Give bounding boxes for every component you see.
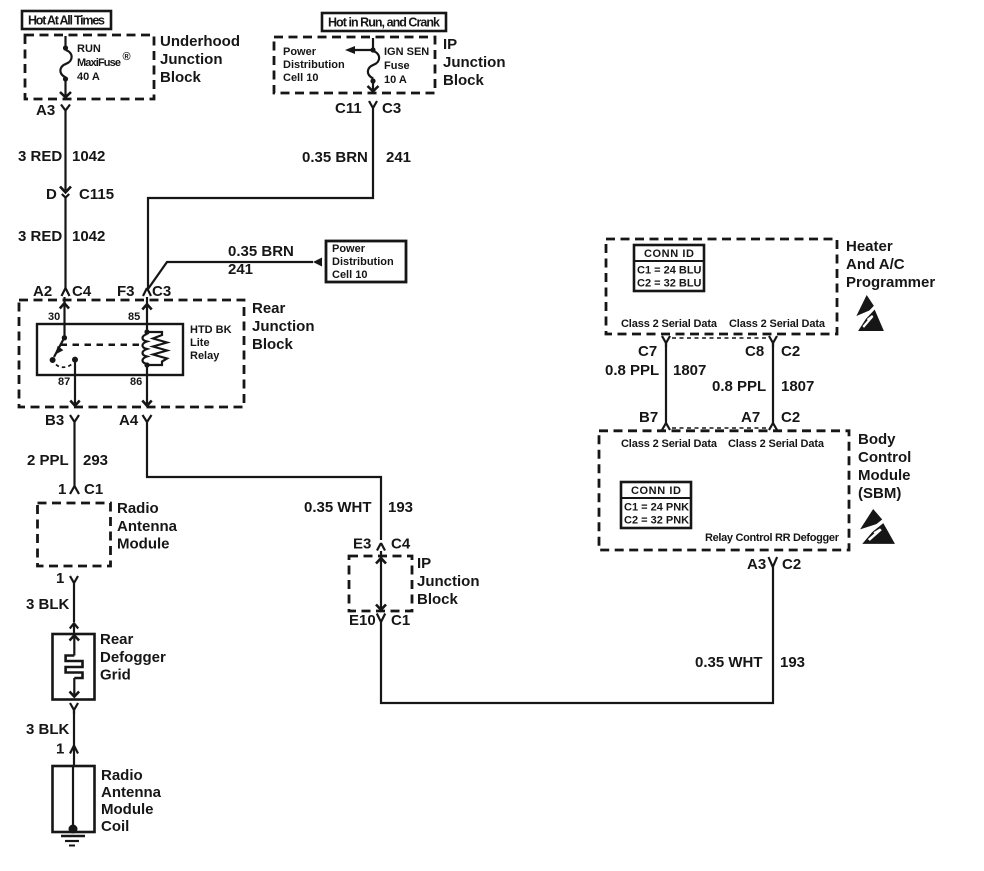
svg-text:Module: Module <box>117 536 170 553</box>
svg-text:Antenna: Antenna <box>101 784 162 801</box>
connector E10 / C1 <box>349 612 410 629</box>
svg-text:Class 2 Serial Data: Class 2 Serial Data <box>621 318 718 330</box>
svg-text:1807: 1807 <box>673 362 706 379</box>
svg-text:Junction: Junction <box>443 54 506 71</box>
defogger grid element <box>66 635 83 696</box>
fuse F: RUN MaxiFuse 40 A <box>60 36 131 97</box>
svg-text:C2: C2 <box>781 343 800 360</box>
banner: Hot in Run, and Crank <box>322 13 446 31</box>
relay mechanical link (dashed) <box>61 344 142 347</box>
connector A3 / C2 (BCM) <box>747 556 801 573</box>
svg-text:Class 2 Serial Data: Class 2 Serial Data <box>621 438 718 450</box>
wire: 3 BLK to coil <box>26 710 74 745</box>
svg-text:1: 1 <box>56 570 64 587</box>
svg-text:0.8 PPL: 0.8 PPL <box>712 378 766 395</box>
svg-text:Module: Module <box>101 801 154 818</box>
svg-text:1042: 1042 <box>72 148 105 165</box>
svg-text:Hot At All Times: Hot At All Times <box>28 14 105 28</box>
connector 1 below Radio Antenna Module <box>56 570 78 587</box>
svg-text:Underhood: Underhood <box>160 33 240 50</box>
svg-text:C3: C3 <box>152 283 171 300</box>
connector A7 / C2 <box>741 409 800 430</box>
svg-text:3 RED: 3 RED <box>18 148 62 165</box>
ESD symbol (BCM) <box>860 509 895 544</box>
svg-text:Power: Power <box>283 46 317 58</box>
svg-text:C7: C7 <box>638 343 657 360</box>
svg-text:0.35 WHT: 0.35 WHT <box>695 654 763 671</box>
svg-text:Block: Block <box>417 591 459 608</box>
fuse: IGN SEN Fuse 10 A <box>368 38 430 91</box>
svg-text:IGN SEN: IGN SEN <box>384 46 429 58</box>
label: Rear Junction Block <box>252 300 315 353</box>
svg-text:Programmer: Programmer <box>846 274 935 291</box>
svg-text:241: 241 <box>228 261 253 278</box>
label: Relay Control RR Defogger <box>705 532 840 544</box>
wire: D to A2 (3 RED 1042) <box>18 198 105 288</box>
svg-text:C1 = 24 BLU: C1 = 24 BLU <box>637 265 702 277</box>
wire through IP junction block with arrows <box>376 551 386 612</box>
svg-text:193: 193 <box>780 654 805 671</box>
svg-text:3 BLK: 3 BLK <box>26 596 70 613</box>
svg-text:C2 = 32 BLU: C2 = 32 BLU <box>637 278 702 290</box>
label: IP Junction Block (bottom) <box>417 555 480 608</box>
connector 1 above coil <box>56 741 78 767</box>
svg-text:2 PPL: 2 PPL <box>27 452 69 469</box>
pin 30 wire with up arrow <box>48 297 69 337</box>
pin 86 wire with down arrow <box>130 365 152 406</box>
connector B3 <box>45 412 79 429</box>
ESD symbol (heater) <box>856 295 884 331</box>
svg-text:C8: C8 <box>745 343 764 360</box>
svg-text:C3: C3 <box>382 100 401 117</box>
svg-text:0.35 BRN: 0.35 BRN <box>228 243 294 260</box>
svg-text:C115: C115 <box>79 186 114 203</box>
svg-text:3 BLK: 3 BLK <box>26 721 70 738</box>
svg-text:293: 293 <box>83 452 108 469</box>
svg-text:Cell 10: Cell 10 <box>332 269 367 281</box>
svg-text:1: 1 <box>58 481 66 498</box>
connector B7 <box>639 409 670 430</box>
connector A4 <box>119 412 152 429</box>
svg-text:D: D <box>46 186 57 203</box>
svg-text:10 A: 10 A <box>384 74 407 86</box>
svg-text:CONN ID: CONN ID <box>644 248 694 260</box>
Rear Junction Block (dashed box) <box>19 300 244 407</box>
svg-text:C4: C4 <box>72 283 92 300</box>
svg-text:A3: A3 <box>36 102 55 119</box>
svg-text:1807: 1807 <box>781 378 814 395</box>
svg-text:MaxiFuse: MaxiFuse <box>77 57 121 69</box>
svg-text:RUN: RUN <box>77 43 101 55</box>
Underhood Junction Block (dashed box) <box>25 35 154 99</box>
svg-text:C2: C2 <box>781 409 800 426</box>
wire: B3 to C1 (2 PPL 293) <box>27 427 108 486</box>
label: Class 2 Serial Data (heater, left) <box>621 318 718 330</box>
svg-text:40 A: 40 A <box>77 71 100 83</box>
svg-text:Cell 10: Cell 10 <box>283 72 318 84</box>
svg-text:Hot in Run, and Crank: Hot in Run, and Crank <box>328 16 440 30</box>
CONN ID box (BLU) <box>634 245 704 291</box>
box: Power Distribution Cell 10 <box>326 241 406 282</box>
svg-text:85: 85 <box>128 311 140 323</box>
label: Underhood Junction Block <box>160 33 240 86</box>
svg-text:E3: E3 <box>353 536 371 553</box>
IP Junction Block bottom (dashed box) <box>349 556 412 611</box>
label: Class 2 Serial Data (BCM, left) <box>621 438 718 450</box>
pin 85 wire with up arrow <box>128 297 152 332</box>
dotted link top <box>672 337 766 339</box>
svg-text:Radio: Radio <box>101 767 143 784</box>
relay switch (pin 30 to 87) <box>50 335 78 367</box>
in-line connector D / C115 <box>46 186 114 203</box>
svg-text:Class 2 Serial Data: Class 2 Serial Data <box>728 438 825 450</box>
connector E3 / C4 <box>353 536 411 553</box>
wire: 3 BLK to defogger grid <box>26 587 74 622</box>
connector C8 / C2 <box>745 336 800 360</box>
banner: Hot At All Times <box>22 11 111 29</box>
svg-text:C1: C1 <box>84 481 103 498</box>
svg-text:CONN ID: CONN ID <box>631 485 681 497</box>
svg-text:Junction: Junction <box>417 573 480 590</box>
svg-text:0.35 WHT: 0.35 WHT <box>304 499 372 516</box>
wire: A3 to D (3 RED 1042) <box>18 114 105 190</box>
svg-text:A7: A7 <box>741 409 760 426</box>
wire: branch from F3 to Power Distribution (0.35 BRN 241) <box>148 243 322 289</box>
svg-text:Class 2 Serial Data: Class 2 Serial Data <box>729 318 826 330</box>
svg-text:Heater: Heater <box>846 238 893 255</box>
svg-text:Antenna: Antenna <box>117 518 178 535</box>
svg-text:Distribution: Distribution <box>332 256 394 268</box>
wire: E10 down right and up to A3/C2 (0.35 WHT 193) <box>381 567 805 703</box>
connector below defogger grid <box>70 703 78 714</box>
svg-text:C1 = 24 PNK: C1 = 24 PNK <box>624 502 689 514</box>
svg-text:C11: C11 <box>335 100 362 117</box>
svg-text:B7: B7 <box>639 409 658 426</box>
svg-text:241: 241 <box>386 149 411 166</box>
connector C11 / C3 <box>335 100 401 117</box>
Radio Antenna Module (dashed box) <box>38 503 111 566</box>
svg-text:A3: A3 <box>747 556 766 573</box>
arrow to Power Distribution <box>345 46 373 54</box>
pin 87 wire with down arrow <box>58 362 80 406</box>
svg-text:C2: C2 <box>782 556 801 573</box>
svg-text:(SBM): (SBM) <box>858 485 901 502</box>
relay coil with resistor <box>143 329 168 367</box>
svg-text:Junction: Junction <box>252 318 315 335</box>
svg-text:0.8 PPL: 0.8 PPL <box>605 362 659 379</box>
svg-text:HTD BK: HTD BK <box>190 324 232 336</box>
label: IP Junction Block (top) <box>443 36 506 89</box>
svg-text:1042: 1042 <box>72 228 105 245</box>
Rear Defogger Grid box <box>53 623 167 700</box>
svg-text:F3: F3 <box>117 283 135 300</box>
Radio Antenna Module Coil box <box>53 766 162 835</box>
connector 1 / C1 <box>58 481 103 498</box>
svg-text:1: 1 <box>56 741 64 758</box>
Body Control Module (dashed box) <box>599 431 849 550</box>
svg-text:Coil: Coil <box>101 818 129 835</box>
svg-text:30: 30 <box>48 311 60 323</box>
svg-text:IP: IP <box>417 555 431 572</box>
svg-text:Grid: Grid <box>100 667 131 684</box>
svg-text:And A/C: And A/C <box>846 256 905 273</box>
Heater And A/C Programmer (dashed box) <box>606 239 837 334</box>
svg-text:Rear: Rear <box>252 300 286 317</box>
svg-text:Rear: Rear <box>100 631 134 648</box>
IP Junction Block top (dashed box) <box>274 37 435 93</box>
connector A3 <box>36 102 70 119</box>
svg-text:Radio: Radio <box>117 500 159 517</box>
connector F3 / C3 <box>117 283 171 300</box>
svg-text:87: 87 <box>58 376 70 388</box>
svg-text:Distribution: Distribution <box>283 59 345 71</box>
svg-text:C4: C4 <box>391 536 411 553</box>
svg-text:Block: Block <box>443 72 485 89</box>
label: Radio Antenna Module <box>117 500 178 553</box>
CONN ID box (PNK) <box>621 482 691 528</box>
svg-text:Lite: Lite <box>190 337 210 349</box>
dotted link bottom <box>672 427 766 429</box>
label: Class 2 Serial Data (heater, right) <box>729 318 826 330</box>
svg-text:0.35 BRN: 0.35 BRN <box>302 149 368 166</box>
label: Heater And A/C Programmer <box>846 238 935 291</box>
svg-text:E10: E10 <box>349 612 376 629</box>
coil internal wire and ground <box>61 766 85 846</box>
svg-text:3 RED: 3 RED <box>18 228 62 245</box>
wire: C7 to B7 (0.8 PPL 1807) <box>605 343 706 423</box>
svg-text:Relay Control RR Defogger: Relay Control RR Defogger <box>705 532 840 544</box>
svg-text:®: ® <box>123 51 131 63</box>
svg-text:Block: Block <box>252 336 294 353</box>
label: Body Control Module (SBM) <box>858 431 911 502</box>
svg-text:193: 193 <box>388 499 413 516</box>
svg-text:Power: Power <box>332 243 366 255</box>
svg-text:86: 86 <box>130 376 142 388</box>
svg-text:Fuse: Fuse <box>384 60 410 72</box>
wire: C8 to A7 (0.8 PPL 1807) <box>712 343 814 423</box>
label: Class 2 Serial Data (BCM, right) <box>728 438 825 450</box>
svg-text:Control: Control <box>858 449 911 466</box>
wire: A4 down and right to E3 (0.35 WHT 193) <box>147 427 413 540</box>
svg-text:Junction: Junction <box>160 51 223 68</box>
svg-text:C1: C1 <box>391 612 410 629</box>
label: Power Distribution Cell 10 (in IP block) <box>283 46 345 84</box>
svg-text:Block: Block <box>160 69 202 86</box>
svg-text:A2: A2 <box>33 283 52 300</box>
wire: C11 branch down-left to F3 <box>148 112 411 288</box>
connector A2 / C4 <box>33 283 92 300</box>
svg-text:B3: B3 <box>45 412 64 429</box>
svg-text:Defogger: Defogger <box>100 649 166 666</box>
svg-text:IP: IP <box>443 36 457 53</box>
svg-text:Body: Body <box>858 431 896 448</box>
svg-text:A4: A4 <box>119 412 139 429</box>
svg-text:Module: Module <box>858 467 911 484</box>
relay box: HTD BK Lite Relay <box>37 324 232 375</box>
svg-text:Relay: Relay <box>190 350 220 362</box>
connector C7 <box>638 336 670 360</box>
svg-text:C2 = 32 PNK: C2 = 32 PNK <box>624 515 689 527</box>
